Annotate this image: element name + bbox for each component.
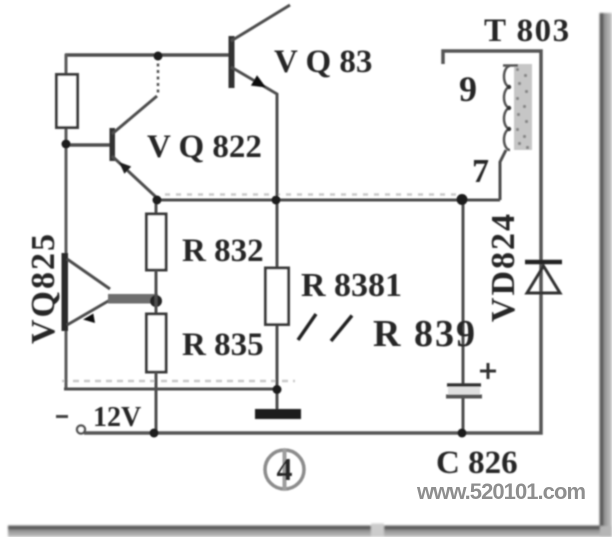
svg-text:V Q 83: V Q 83 <box>274 44 372 80</box>
svg-text:C 826: C 826 <box>436 445 518 481</box>
svg-text:V Q 822: V Q 822 <box>147 129 262 165</box>
svg-text:R 835: R 835 <box>182 327 264 363</box>
svg-text:R 8381: R 8381 <box>301 267 402 304</box>
svg-text:7: 7 <box>472 153 489 190</box>
svg-text:www.520101.com: www.520101.com <box>416 479 586 504</box>
svg-text:4: 4 <box>277 451 293 487</box>
svg-text:9: 9 <box>459 69 477 109</box>
svg-text:VQ825: VQ825 <box>25 232 62 344</box>
svg-text:12V: 12V <box>93 402 141 433</box>
svg-text:VD824: VD824 <box>485 212 522 322</box>
svg-text:T 803: T 803 <box>484 13 571 49</box>
svg-text:R 839: R 839 <box>373 313 477 355</box>
svg-text:R 832: R 832 <box>182 233 264 269</box>
